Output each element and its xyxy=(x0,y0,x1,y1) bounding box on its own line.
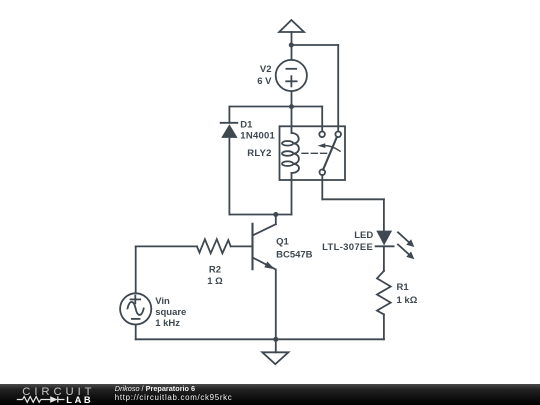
svg-text:LTL-307EE: LTL-307EE xyxy=(322,242,373,253)
svg-text:R1: R1 xyxy=(397,282,410,293)
svg-text:Drikoso / Preparatorio 6: Drikoso / Preparatorio 6 xyxy=(115,384,195,393)
svg-text:LED: LED xyxy=(354,230,373,241)
svg-text:square: square xyxy=(155,307,186,318)
svg-text:1 kHz: 1 kHz xyxy=(155,318,180,329)
svg-text:R2: R2 xyxy=(209,264,221,275)
svg-text:6 V: 6 V xyxy=(257,76,272,87)
svg-text:V2: V2 xyxy=(260,64,272,75)
svg-text:Vin: Vin xyxy=(155,296,170,307)
svg-text:1 kΩ: 1 kΩ xyxy=(397,295,418,306)
svg-text:LAB: LAB xyxy=(66,395,93,405)
svg-text:1 Ω: 1 Ω xyxy=(207,276,223,287)
svg-text:1N4001: 1N4001 xyxy=(240,131,275,142)
svg-text:RLY2: RLY2 xyxy=(247,148,271,159)
svg-text:BC547B: BC547B xyxy=(276,249,313,260)
svg-text:http://circuitlab.com/ck95rkc: http://circuitlab.com/ck95rkc xyxy=(115,393,233,402)
svg-text:Q1: Q1 xyxy=(276,236,289,247)
svg-text:D1: D1 xyxy=(240,120,253,131)
